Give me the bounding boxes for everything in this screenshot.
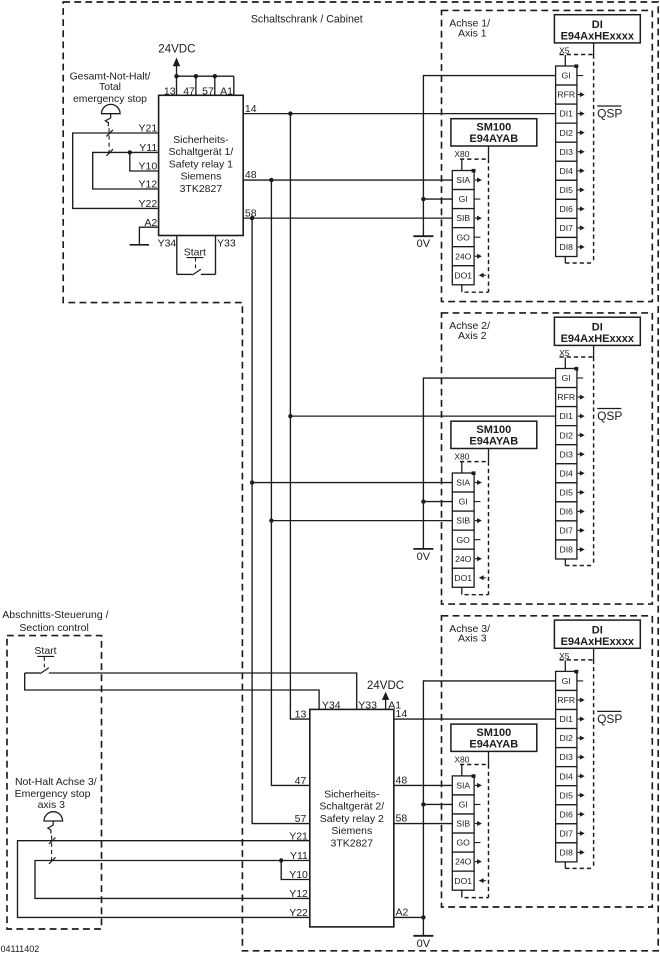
safety relay K1 box (Siemens 3TK2827)	[159, 95, 244, 235]
svg-text:DI5: DI5	[560, 487, 574, 497]
safety module SM100 box E94AYAB (axis 3)	[451, 724, 537, 751]
svg-text:DI5: DI5	[560, 790, 574, 800]
safety module SM100 box E94AYAB (axis 1)	[451, 119, 537, 146]
emergency stop S1 contact 2 blade	[106, 149, 113, 156]
pin X5:DI3 (axis 1)	[556, 142, 577, 161]
section control dashed box	[7, 636, 102, 929]
svg-text:Axis 3: Axis 3	[458, 633, 487, 645]
QSP signal label (axis 2)	[597, 408, 621, 410]
pin X80:DO1 (axis 3)	[452, 871, 474, 890]
junction: Y11/Y10 node (K2)	[279, 858, 283, 862]
wire: Y10 branch (K1)	[130, 152, 159, 171]
svg-text:3TK2827: 3TK2827	[330, 837, 373, 849]
emergency stop S4 actuator link	[48, 821, 53, 834]
svg-text:24VDC: 24VDC	[158, 44, 195, 56]
svg-text:Schaltschrank / Cabinet: Schaltschrank / Cabinet	[251, 13, 363, 25]
wire: start S3 to K2 Y33	[49, 673, 357, 709]
drive DI box E94AxHExxxx (axis 1)	[554, 15, 640, 43]
pin X5:DI1 (axis 3)	[556, 710, 577, 729]
svg-text:Abschnitts-Steuerung /: Abschnitts-Steuerung /	[2, 609, 108, 621]
svg-text:Section control: Section control	[19, 622, 88, 634]
wire: X5 strip top stub (axis 2)	[564, 358, 566, 369]
svg-text:DI1: DI1	[560, 109, 574, 119]
svg-text:24VDC: 24VDC	[367, 680, 404, 692]
pin X5:DI8 (axis 2)	[556, 540, 577, 559]
svg-text:DI1: DI1	[560, 411, 574, 421]
pin X80:GO (axis 1)	[452, 228, 474, 247]
svg-text:X80: X80	[454, 452, 469, 462]
svg-text:QSP: QSP	[597, 712, 622, 726]
pin X5:RFR (axis 2)	[556, 388, 577, 407]
wire: X80 strip bottom stub (axis 3)	[461, 890, 463, 897]
wire: start S3 left segment	[25, 672, 41, 674]
emergency stop S4 mushroom head	[44, 812, 63, 821]
axis 3 enclosure (Achse 3) dashed box	[442, 616, 653, 907]
pin X80:24O (axis 1)	[452, 247, 474, 266]
svg-text:Sicherheits-: Sicherheits-	[173, 134, 229, 146]
svg-text:Axis 2: Axis 2	[458, 330, 487, 342]
wire: 0V rail to X5 GI (axis 1)	[423, 76, 555, 237]
svg-text:DI6: DI6	[560, 809, 574, 819]
junction: trunk 48 to axis2 SIB	[269, 518, 273, 522]
junction: K2 A2 on 0V rail	[421, 915, 425, 919]
wire: X80 strip top stub (axis 3)	[461, 765, 463, 776]
pin X5:DI2 (axis 3)	[556, 729, 577, 748]
junction: 48 branch to trunk	[269, 178, 273, 182]
svg-text:DI: DI	[592, 321, 603, 333]
svg-text:GI: GI	[459, 800, 468, 810]
pin X80:24O (axis 2)	[452, 549, 474, 568]
connector X5 stub from DI box (axis 1)	[593, 43, 595, 55]
connector X5 stub from DI box (axis 2)	[593, 345, 595, 357]
wire: start S3 return to K2 Y34	[25, 673, 319, 709]
svg-text:DI8: DI8	[560, 545, 574, 555]
svg-text:DI6: DI6	[560, 506, 574, 516]
wire: X80 strip bottom stub (axis 1)	[461, 285, 463, 292]
wire: K1 A2 to ground	[139, 227, 158, 245]
junction: Y11/Y10 node (K1)	[128, 150, 132, 154]
wire: 0V rail to X80 GI (axis 2)	[423, 501, 452, 503]
svg-text:DI: DI	[592, 624, 603, 636]
svg-text:Siemens: Siemens	[331, 825, 372, 837]
svg-text:DI5: DI5	[560, 185, 574, 195]
0V ground bar (axis 2)	[413, 548, 433, 550]
connector X80 stub from SM100 box (axis 1)	[488, 146, 490, 159]
svg-text:E94AxHExxxx: E94AxHExxxx	[561, 636, 635, 648]
wire: Y10 branch (K2)	[281, 861, 310, 880]
svg-text:GI: GI	[562, 676, 571, 686]
wire: K1 Y33 stub to start S2	[215, 236, 217, 275]
ground bar at K1 A2	[130, 244, 149, 246]
svg-text:axis 3: axis 3	[38, 799, 66, 811]
pin X5:RFR (axis 3)	[556, 690, 577, 709]
wire: trunk 14 branch to axis2 X5 DI1	[290, 415, 555, 417]
QSP signal label (axis 3)	[597, 710, 621, 712]
safety module SM100 box E94AYAB (axis 2)	[451, 421, 537, 448]
X5 strip corner mark (axis 3)	[574, 670, 578, 674]
junction: 0V rail to X80 GI (axis 1)	[421, 197, 425, 201]
svg-text:Y33: Y33	[358, 699, 377, 711]
svg-text:DI: DI	[592, 19, 603, 31]
drive DI box E94AxHExxxx (axis 3)	[554, 620, 640, 648]
wire: X5 strip top stub (axis 1)	[564, 55, 566, 66]
pin X5:DI8 (axis 3)	[556, 843, 577, 862]
pin X5:DI1 (axis 1)	[556, 104, 577, 123]
svg-text:DI2: DI2	[560, 430, 574, 440]
pin X5:DI3 (axis 2)	[556, 445, 577, 464]
pin X5:DI6 (axis 1)	[556, 199, 577, 218]
svg-text:X80: X80	[454, 754, 469, 764]
junction: 14 branch to trunk	[288, 111, 292, 115]
pin X80:GO (axis 2)	[452, 530, 474, 549]
pin X80:SIA (axis 1)	[452, 171, 474, 190]
svg-text:Siemens: Siemens	[180, 171, 221, 183]
svg-text:Y34: Y34	[322, 699, 341, 711]
pin X80:SIA (axis 3)	[452, 776, 474, 795]
wire: K2 output 14 to axis3 X5 DI1	[394, 718, 556, 720]
wire: X5 strip bottom stub (axis 2)	[564, 559, 566, 566]
emergency stop S1 contact 1 blade	[106, 130, 113, 137]
svg-text:DI4: DI4	[560, 771, 574, 781]
wire: X5 strip bottom stub (axis 3)	[564, 862, 566, 869]
pin X5:DI5 (axis 3)	[556, 786, 577, 805]
svg-text:24O: 24O	[455, 857, 472, 867]
svg-text:SIB: SIB	[456, 516, 470, 526]
pin X5:DI7 (axis 1)	[556, 218, 577, 237]
wire: X80 strip top stub (axis 2)	[461, 462, 463, 473]
wire: 0V rail to X5 GI (axis 3)	[423, 681, 555, 936]
svg-text:GI: GI	[459, 497, 468, 507]
svg-text:47: 47	[295, 775, 307, 787]
pin X80:GI (axis 3)	[452, 795, 474, 814]
wire: K2 A2 to 0V rail	[394, 916, 424, 918]
svg-text:DI6: DI6	[560, 204, 574, 214]
pin X5:DI7 (axis 2)	[556, 521, 577, 540]
pin X80:GI (axis 1)	[452, 190, 474, 209]
wire: K1 output 58 to axis1 X80 SIB	[243, 217, 452, 219]
wire: 0V rail to X80 GI (axis 1)	[423, 198, 452, 200]
svg-text:DI8: DI8	[560, 847, 574, 857]
wire: 0V rail to X80 GI (axis 3)	[423, 803, 452, 805]
wire: 0V rail to X5 GI (axis 2)	[423, 378, 555, 549]
pin X80:GO (axis 3)	[452, 833, 474, 852]
axis 1 enclosure (Achse 1) dashed box	[442, 10, 653, 301]
pin X80:GI (axis 2)	[452, 492, 474, 511]
pin X5:GI (axis 2)	[556, 369, 577, 388]
pin X5:DI4 (axis 2)	[556, 464, 577, 483]
wire: trunk 48 -> K2 input 47	[271, 180, 309, 785]
svg-text:Safety relay 1: Safety relay 1	[169, 158, 233, 170]
svg-text:DO1: DO1	[454, 270, 472, 280]
junction on bus at terminal 13	[174, 74, 178, 78]
wire: trunk 58 branch to axis2 X80 SIA	[252, 482, 452, 484]
junction: 0V rail to X80 GI (axis 2)	[421, 499, 425, 503]
svg-text:E94AYAB: E94AYAB	[469, 739, 518, 751]
pin X5:DI2 (axis 2)	[556, 426, 577, 445]
emergency stop S1 actuator link	[105, 114, 110, 127]
junction: 0V rail to X80 GI (axis 3)	[421, 802, 425, 806]
svg-text:GI: GI	[562, 71, 571, 81]
pin X80:SIB (axis 1)	[452, 209, 474, 228]
connector X80 dashed frame (axis 3)	[460, 764, 489, 766]
wire: X5 strip top stub (axis 3)	[564, 660, 566, 671]
connector X5 dashed frame (axis 3)	[560, 659, 594, 661]
svg-text:Sicherheits-: Sicherheits-	[324, 789, 380, 801]
wire: X80 strip top stub (axis 1)	[461, 160, 463, 171]
wire: stub terminal 47 (K1)	[195, 76, 197, 95]
svg-text:GO: GO	[457, 232, 471, 242]
junction: trunk 14 to axis2 DI1	[288, 414, 292, 418]
X80 strip corner mark (axis 1)	[472, 169, 476, 173]
svg-text:Safety relay 2: Safety relay 2	[320, 813, 384, 825]
svg-text:GO: GO	[457, 838, 471, 848]
svg-text:SM100: SM100	[476, 122, 511, 134]
emergency stop S1 mushroom head	[102, 104, 121, 113]
svg-text:SIA: SIA	[456, 175, 470, 185]
pin X5:DI6 (axis 3)	[556, 805, 577, 824]
wire: trunk 48 branch to axis2 X80 SIB	[271, 520, 452, 522]
pin X80:SIB (axis 3)	[452, 814, 474, 833]
svg-text:SIB: SIB	[456, 213, 470, 223]
svg-text:DI2: DI2	[560, 128, 574, 138]
wire: start S2 left segment	[177, 273, 193, 275]
emergency stop S4 contact 2 blade	[49, 857, 56, 864]
svg-text:57: 57	[295, 813, 307, 825]
svg-text:emergency stop: emergency stop	[73, 94, 147, 105]
pin X5:RFR (axis 1)	[556, 85, 577, 104]
svg-text:Schaltgerät 1/: Schaltgerät 1/	[169, 146, 234, 158]
wire: K2 output 58 to axis3 X80 SIB	[394, 823, 453, 825]
connector X80 dashed frame (axis 1)	[460, 158, 489, 160]
wire: start S2 right segment	[201, 273, 216, 275]
svg-text:E94AYAB: E94AYAB	[469, 133, 518, 145]
svg-text:24O: 24O	[455, 554, 472, 564]
svg-text:Gesamt-Not-Halt/: Gesamt-Not-Halt/	[70, 72, 151, 83]
svg-text:0V: 0V	[417, 938, 431, 950]
svg-text:DO1: DO1	[454, 876, 472, 886]
drive DI box E94AxHExxxx (axis 2)	[554, 317, 640, 345]
pin X5:DI4 (axis 1)	[556, 161, 577, 180]
svg-text:13: 13	[295, 709, 307, 721]
svg-text:Total: Total	[99, 82, 121, 93]
junction on bus at terminal 57	[213, 74, 217, 78]
pin X80:DO1 (axis 1)	[452, 266, 474, 285]
wire: stub terminal 13 (K1)	[176, 76, 178, 95]
svg-text:SIB: SIB	[456, 819, 470, 829]
wire: K1 Y11 - e-stop S1 contact 2 - rail	[93, 152, 159, 189]
svg-text:GI: GI	[459, 194, 468, 204]
svg-text:Y33: Y33	[217, 238, 236, 250]
svg-text:E94AxHExxxx: E94AxHExxxx	[561, 30, 635, 42]
pin X5:GI (axis 1)	[556, 66, 577, 85]
wire: K2 Y21 - e-stop S4 contact 1 - rail	[18, 841, 310, 918]
svg-text:DI4: DI4	[560, 468, 574, 478]
svg-text:DI3: DI3	[560, 449, 574, 459]
X80 strip corner mark (axis 3)	[472, 774, 476, 778]
svg-text:0V: 0V	[417, 238, 431, 250]
pin X80:SIB (axis 2)	[452, 511, 474, 530]
wire: K1 output 48 to axis1 X80 SIA	[243, 179, 452, 181]
svg-text:Schaltgerät 2/: Schaltgerät 2/	[319, 801, 384, 813]
svg-text:GI: GI	[562, 373, 571, 383]
svg-text:Start: Start	[34, 645, 56, 657]
svg-text:57: 57	[202, 85, 214, 97]
svg-text:RFR: RFR	[557, 695, 575, 705]
svg-text:QSP: QSP	[597, 106, 622, 120]
wire: trunk 14 -> K2 input 13	[290, 114, 309, 719]
junction on bus at terminal 47	[194, 74, 198, 78]
connector X80 stub from SM100 box (axis 3)	[488, 751, 490, 764]
svg-text:X80: X80	[454, 149, 469, 159]
svg-text:3TK2827: 3TK2827	[180, 183, 223, 195]
wire: K1 Y21 - e-stop S1 contact 1 - rail	[73, 133, 159, 208]
svg-text:SIA: SIA	[456, 478, 470, 488]
svg-text:E94AxHExxxx: E94AxHExxxx	[561, 333, 635, 345]
start button S2 contact blade	[192, 269, 201, 275]
svg-text:QSP: QSP	[597, 409, 622, 423]
svg-text:E94AYAB: E94AYAB	[469, 436, 518, 448]
svg-text:13: 13	[164, 85, 176, 97]
connector X5 dashed frame (axis 2)	[560, 356, 594, 358]
svg-text:SIA: SIA	[456, 781, 470, 791]
wire: stub terminal 57 (K1)	[214, 76, 216, 95]
wire: K1 output 14 to axis1 X5 DI1	[243, 113, 555, 115]
QSP signal label (axis 1)	[597, 105, 621, 107]
wire: 24VDC bus over relay K1 terminals	[177, 75, 234, 77]
svg-text:SM100: SM100	[476, 424, 511, 436]
junction: 58 branch to trunk	[250, 216, 254, 220]
svg-text:DI7: DI7	[560, 526, 574, 536]
svg-text:RFR: RFR	[557, 90, 575, 100]
connector X80 dashed frame (axis 2)	[460, 461, 489, 463]
connector X5 stub from DI box (axis 3)	[593, 648, 595, 660]
pin X5:GI (axis 3)	[556, 671, 577, 690]
wire: trunk 58 -> K2 input 57	[252, 218, 310, 823]
pin X5:DI3 (axis 3)	[556, 748, 577, 767]
0V ground bar (axis 3)	[413, 935, 433, 937]
svg-text:0V: 0V	[417, 551, 431, 563]
wire: stub terminal A1 (K1)	[233, 76, 235, 95]
svg-text:DI7: DI7	[560, 223, 574, 233]
svg-text:SM100: SM100	[476, 727, 511, 739]
svg-text:A1: A1	[220, 85, 233, 97]
svg-text:Start: Start	[184, 246, 206, 258]
24VDC supply arrow at K2 A1	[385, 699, 387, 710]
pin X5:DI8 (axis 1)	[556, 237, 577, 256]
pin X5:DI5 (axis 2)	[556, 483, 577, 502]
pin X80:24O (axis 3)	[452, 852, 474, 871]
svg-text:DI7: DI7	[560, 828, 574, 838]
wire: X80 strip bottom stub (axis 2)	[461, 587, 463, 594]
svg-text:GO: GO	[457, 535, 471, 545]
svg-text:DI4: DI4	[560, 166, 574, 176]
svg-text:DI8: DI8	[560, 242, 574, 252]
wire: K2 Y11 - e-stop S4 contact 2 - rail	[35, 861, 310, 899]
svg-text:04111402: 04111402	[1, 944, 40, 954]
pin X5:DI7 (axis 3)	[556, 824, 577, 843]
axis 2 enclosure (Achse 2) dashed box	[442, 313, 653, 604]
pin X5:DI4 (axis 3)	[556, 767, 577, 786]
svg-text:Emergency stop: Emergency stop	[15, 788, 91, 800]
emergency stop S4 contact 1 blade	[49, 838, 56, 845]
svg-text:Not-Halt Achse 3/: Not-Halt Achse 3/	[15, 776, 97, 788]
24VDC supply arrow (relay K1)	[176, 65, 178, 76]
junction: trunk 58 to axis2 SIA	[250, 480, 254, 484]
svg-text:RFR: RFR	[557, 392, 575, 402]
svg-text:DI3: DI3	[560, 752, 574, 762]
safety relay K2 box (Siemens 3TK2827)	[310, 709, 394, 927]
pin X5:DI2 (axis 1)	[556, 123, 577, 142]
wire: K2 output 48 to axis3 X80 SIA	[394, 784, 453, 786]
connector X80 stub from SM100 box (axis 2)	[488, 449, 490, 462]
svg-text:24O: 24O	[455, 251, 472, 261]
pin X5:DI5 (axis 1)	[556, 180, 577, 199]
start button S2 plunger	[195, 258, 197, 262]
svg-text:DI2: DI2	[560, 733, 574, 743]
wire: K1 Y34 stub to start S2	[176, 236, 178, 275]
0V ground bar (axis 1)	[413, 235, 433, 237]
svg-text:Axis 1: Axis 1	[458, 27, 487, 39]
pin X80:DO1 (axis 2)	[452, 568, 474, 587]
svg-text:Y34: Y34	[158, 238, 177, 250]
svg-text:DI3: DI3	[560, 147, 574, 157]
start button S3 plunger	[43, 656, 45, 661]
pin X5:DI1 (axis 2)	[556, 407, 577, 426]
X5 strip corner mark (axis 1)	[574, 64, 578, 68]
wire: X5 strip bottom stub (axis 1)	[564, 257, 566, 264]
pin X5:DI6 (axis 2)	[556, 502, 577, 521]
connector X5 dashed frame (axis 1)	[560, 54, 594, 56]
X5 strip corner mark (axis 2)	[574, 367, 578, 371]
pin X80:SIA (axis 2)	[452, 473, 474, 492]
svg-text:DI1: DI1	[560, 714, 574, 724]
X80 strip corner mark (axis 2)	[472, 471, 476, 475]
start button S3 contact blade	[40, 668, 49, 674]
svg-text:47: 47	[183, 85, 195, 97]
svg-text:DO1: DO1	[454, 573, 472, 583]
